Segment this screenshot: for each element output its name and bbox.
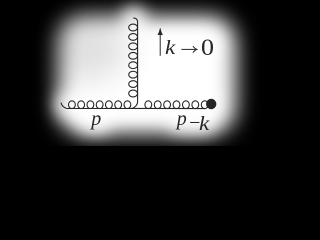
arrow indicating k direction (vertical) bbox=[158, 28, 163, 56]
wire: horizontal gluon baseline bbox=[61, 103, 206, 109]
gluon propagator p: left segment loops bbox=[69, 101, 76, 109]
arrow glyph of 'k -> 0' bbox=[181, 46, 196, 52]
gluon emission k: vertical line with hooks bbox=[132, 18, 138, 109]
label p (of p-k) bbox=[177, 108, 187, 131]
gluon propagator p-k: right segment loops bbox=[145, 101, 152, 109]
gluon emission k: vertical loops bbox=[129, 24, 138, 31]
label minus (of p-k) bbox=[189, 112, 200, 135]
label 0 (of k->0) bbox=[201, 35, 214, 61]
label k (of p-k) bbox=[199, 113, 209, 136]
label p (left) bbox=[91, 108, 101, 131]
label k (of k->0) bbox=[165, 37, 175, 60]
blob vertex dot bbox=[206, 99, 216, 109]
paper glow background bbox=[58, 16, 236, 134]
